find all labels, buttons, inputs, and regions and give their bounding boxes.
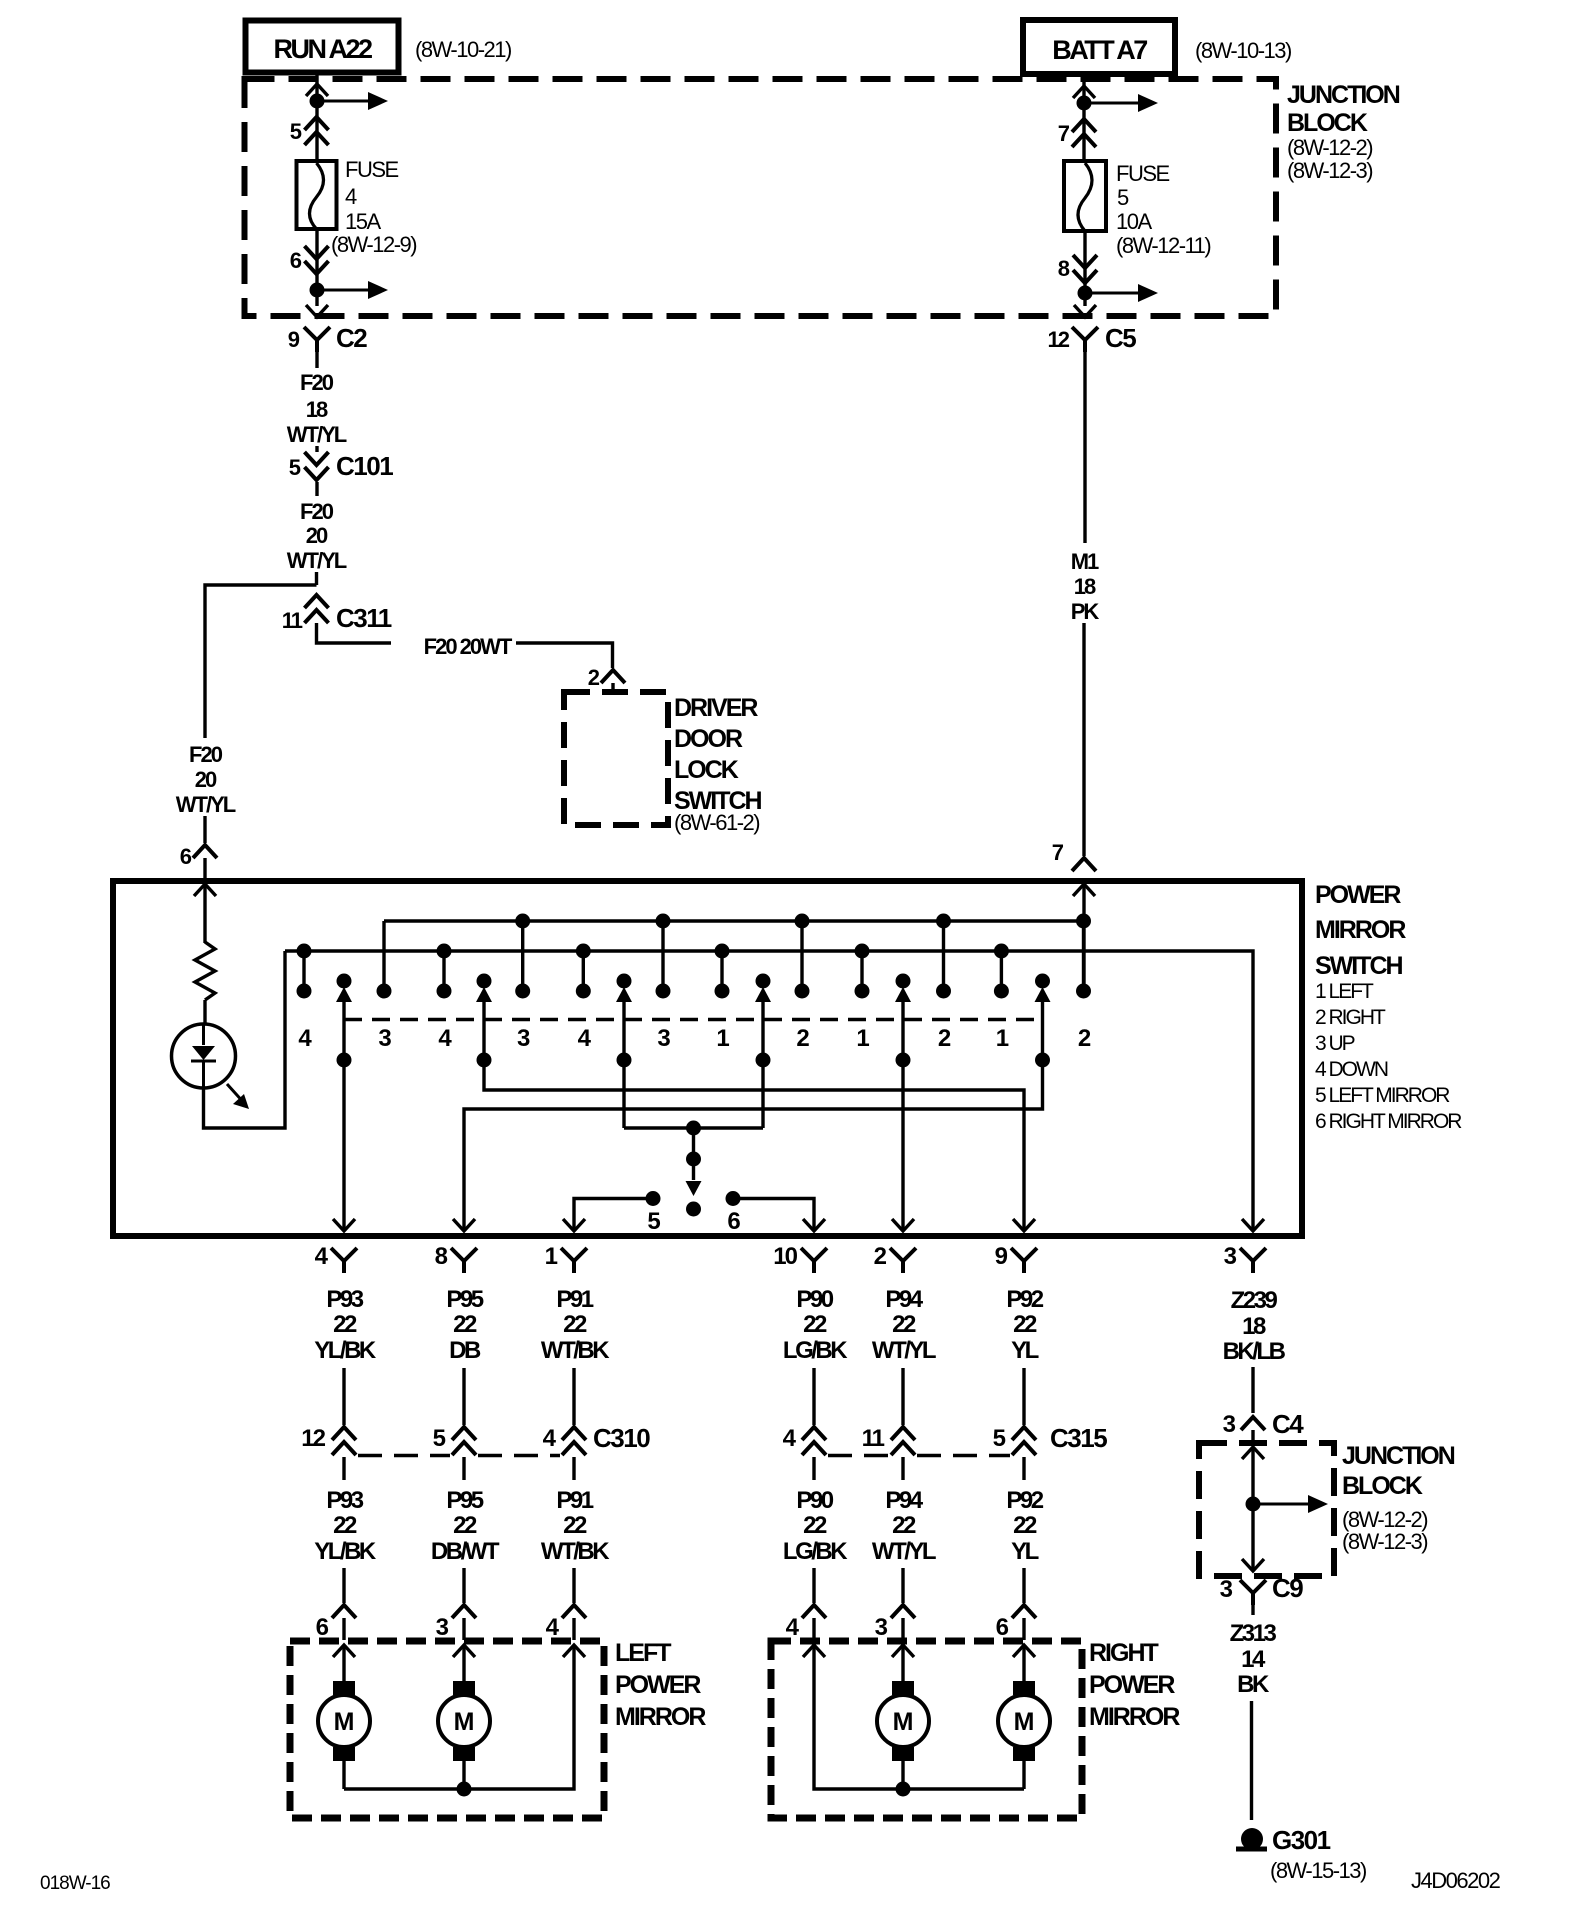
svg-text:3: 3	[1224, 1243, 1237, 1270]
svg-text:P93: P93	[326, 1286, 363, 1313]
svg-text:DRIVER: DRIVER	[674, 694, 758, 722]
svg-text:6: 6	[290, 248, 302, 273]
svg-text:POWER: POWER	[615, 1671, 701, 1699]
svg-text:P92: P92	[1006, 1487, 1043, 1514]
svg-text:22: 22	[803, 1512, 827, 1539]
connector chevrons pin 8	[1073, 270, 1097, 283]
svg-text:5: 5	[433, 1425, 446, 1452]
branch arrow right (right bottom)	[1085, 292, 1140, 295]
svg-text:9: 9	[995, 1243, 1008, 1270]
svg-text:7: 7	[1058, 121, 1070, 146]
wire contact 6 to pin 10	[733, 1199, 814, 1232]
svg-text:12: 12	[1048, 327, 1070, 352]
svg-text:WT/YL: WT/YL	[872, 1337, 936, 1364]
svg-text:BATT A7: BATT A7	[1052, 35, 1147, 65]
wire BATT A7 to junction block	[1082, 74, 1085, 86]
svg-text:6: 6	[180, 844, 192, 869]
svg-text:JUNCTION: JUNCTION	[1342, 1442, 1455, 1470]
bus 1 junction dots	[515, 914, 530, 929]
svg-text:P95: P95	[446, 1286, 483, 1313]
wire wipers H and K to selector common	[622, 1060, 625, 1128]
svg-text:5: 5	[1117, 185, 1129, 210]
svg-text:BK: BK	[1237, 1671, 1270, 1698]
right mirror common wires	[901, 1761, 904, 1789]
svg-text:MIRROR: MIRROR	[1089, 1703, 1180, 1731]
svg-text:2: 2	[1078, 1025, 1091, 1052]
svg-text:3: 3	[517, 1025, 530, 1052]
svg-text:DB: DB	[449, 1337, 481, 1364]
node BATT A7 feed box	[1023, 20, 1175, 74]
power bus line 1 (from pin 7)	[384, 919, 1084, 922]
svg-text:2: 2	[588, 665, 600, 690]
branch arrow right in junction block 2	[1253, 1503, 1310, 1506]
wire wiper B to pin 4	[342, 1060, 345, 1231]
svg-text:3: 3	[378, 1025, 391, 1052]
svg-text:14: 14	[1241, 1646, 1266, 1673]
left mirror left/right motor M	[462, 1645, 465, 1681]
svg-text:(8W-10-21): (8W-10-21)	[415, 37, 511, 62]
wire C311 to driver door lock switch, F20 20WT	[317, 623, 392, 643]
node RUN A22 feed box	[246, 21, 399, 73]
pin 7 feed wire inside switch	[1073, 884, 1095, 896]
svg-text:P90: P90	[796, 1487, 833, 1514]
svg-text:22: 22	[803, 1311, 827, 1338]
power mirror switch box	[113, 881, 1302, 1236]
svg-text:8: 8	[435, 1243, 448, 1270]
svg-text:5 LEFT MIRROR: 5 LEFT MIRROR	[1315, 1084, 1450, 1107]
svg-text:RUN A22: RUN A22	[273, 34, 372, 64]
svg-text:4: 4	[345, 184, 357, 209]
svg-text:1: 1	[856, 1025, 869, 1052]
wire wiper N to pin 2	[901, 1060, 904, 1231]
svg-text:2 RIGHT: 2 RIGHT	[1315, 1006, 1386, 1029]
svg-text:4 DOWN: 4 DOWN	[1315, 1058, 1388, 1081]
mechanical coupling dashed line	[344, 1018, 1043, 1022]
LED illumination lamp	[172, 1024, 236, 1088]
svg-text:9: 9	[288, 327, 300, 352]
left mirror up/down motor M	[342, 1645, 345, 1681]
wire label Z313 14 BK	[1251, 1605, 1254, 1615]
ground G301	[1241, 1828, 1263, 1850]
svg-text:BLOCK: BLOCK	[1287, 109, 1368, 137]
entry arrows left mirror	[333, 1645, 355, 1657]
svg-text:WT/YL: WT/YL	[872, 1538, 936, 1565]
svg-text:10A: 10A	[1116, 209, 1152, 234]
left mirror common wires	[342, 1761, 345, 1789]
svg-text:3 UP: 3 UP	[1315, 1032, 1355, 1055]
svg-text:C4: C4	[1272, 1409, 1304, 1439]
svg-text:C311: C311	[336, 603, 392, 633]
svg-text:2: 2	[796, 1025, 809, 1052]
entry arrow into junction block (left)	[306, 84, 328, 96]
svg-text:18: 18	[1242, 1313, 1266, 1340]
svg-text:6 RIGHT MIRROR: 6 RIGHT MIRROR	[1315, 1110, 1462, 1133]
svg-text:3: 3	[1223, 1411, 1236, 1438]
svg-text:FUSE: FUSE	[1116, 161, 1170, 186]
junction dot right mirror common	[896, 1782, 911, 1797]
svg-text:5: 5	[647, 1208, 660, 1235]
right mirror left/right motor M	[1022, 1645, 1025, 1681]
right mirror up/down motor M	[901, 1645, 904, 1681]
svg-text:22: 22	[1013, 1311, 1037, 1338]
wire F20 18 WT/YL	[315, 352, 318, 368]
svg-text:M: M	[1014, 1708, 1035, 1736]
svg-text:F20: F20	[300, 370, 334, 395]
svg-text:1: 1	[996, 1025, 1009, 1052]
svg-text:22: 22	[453, 1311, 477, 1338]
fuse F5 body	[1064, 161, 1106, 231]
svg-text:11: 11	[282, 608, 303, 633]
entry arrow junction block 2	[1242, 1447, 1264, 1459]
svg-text:F20: F20	[300, 499, 334, 524]
svg-text:LG/BK: LG/BK	[783, 1538, 848, 1565]
exit arrow from junction block (right)	[1074, 305, 1096, 317]
svg-text:WT/YL: WT/YL	[176, 792, 236, 817]
svg-text:C2: C2	[336, 323, 367, 353]
svg-text:POWER: POWER	[1089, 1671, 1175, 1699]
svg-text:M: M	[334, 1708, 355, 1736]
svg-text:11: 11	[862, 1425, 885, 1452]
svg-text:POWER: POWER	[1315, 881, 1401, 909]
svg-text:YL: YL	[1011, 1538, 1039, 1565]
svg-text:FUSE: FUSE	[345, 157, 399, 182]
svg-text:F20 20WT: F20 20WT	[424, 634, 513, 659]
left power mirror dashed box	[290, 1641, 604, 1818]
wire Z239 to C4	[1251, 1367, 1254, 1413]
bus 2 junction dots	[297, 944, 312, 959]
svg-text:JUNCTION: JUNCTION	[1287, 81, 1400, 109]
svg-text:(8W-10-13): (8W-10-13)	[1195, 38, 1291, 63]
svg-text:6: 6	[996, 1614, 1009, 1641]
svg-text:1 LEFT: 1 LEFT	[1315, 980, 1374, 1003]
svg-text:WT/YL: WT/YL	[287, 422, 347, 447]
wire branch to power mirror switch pin 6	[205, 585, 317, 738]
right power mirror dashed box	[771, 1641, 1082, 1818]
svg-text:RIGHT: RIGHT	[1089, 1639, 1159, 1667]
svg-text:DOOR: DOOR	[674, 725, 743, 753]
svg-text:MIRROR: MIRROR	[615, 1703, 706, 1731]
branch arrow right (left top)	[317, 100, 370, 103]
svg-text:12: 12	[301, 1425, 325, 1452]
wire Z313 to ground	[1250, 1701, 1253, 1820]
svg-text:1: 1	[716, 1025, 729, 1052]
junction dot left mirror common	[457, 1782, 472, 1797]
svg-text:C5: C5	[1105, 323, 1136, 353]
connector chevrons pin 6	[305, 261, 329, 274]
svg-text:10: 10	[773, 1243, 797, 1270]
svg-text:(8W-12-9): (8W-12-9)	[331, 232, 416, 257]
svg-text:C315: C315	[1050, 1423, 1107, 1453]
wire wiper Q to pin 8	[464, 1060, 1043, 1231]
wires from labels row1 to C310/C315	[342, 1368, 345, 1425]
svg-text:MIRROR: MIRROR	[1315, 916, 1406, 944]
wires from labels row2 to mirror pins	[342, 1568, 345, 1603]
svg-text:8: 8	[1058, 256, 1070, 281]
wire LED return to ground bus	[204, 951, 286, 1128]
svg-text:P94: P94	[885, 1487, 923, 1514]
svg-text:P94: P94	[885, 1286, 923, 1313]
junction block 2 dashed box	[1199, 1443, 1334, 1576]
junction dot below RUN A22 entry	[310, 94, 325, 109]
svg-text:(8W-15-13): (8W-15-13)	[1270, 1858, 1366, 1883]
svg-text:6: 6	[727, 1208, 740, 1235]
exit arrow from junction block (left)	[306, 305, 328, 317]
exit arrow pin 3 to Z239	[1242, 1219, 1264, 1231]
svg-text:J4D06202: J4D06202	[1411, 1868, 1501, 1893]
svg-text:Z239: Z239	[1231, 1287, 1278, 1314]
junction dot below BATT A7 entry	[1077, 96, 1092, 111]
svg-text:DB/WT: DB/WT	[431, 1538, 500, 1565]
svg-text:3: 3	[1220, 1576, 1233, 1603]
selector contact 5 (left mirror)	[646, 1191, 661, 1206]
svg-text:22: 22	[563, 1512, 587, 1539]
svg-text:2: 2	[874, 1243, 887, 1270]
svg-text:BLOCK: BLOCK	[1342, 1472, 1423, 1500]
svg-text:3: 3	[436, 1614, 449, 1641]
junction block 1 dashed outline	[245, 79, 1277, 316]
wire RUN A22 to junction block	[315, 72, 318, 84]
svg-text:22: 22	[333, 1512, 357, 1539]
svg-text:M: M	[454, 1708, 475, 1736]
movable contact arms (wiper arrows)	[337, 974, 352, 989]
svg-text:G301: G301	[1272, 1825, 1331, 1855]
svg-text:018W-16: 018W-16	[40, 1873, 110, 1894]
svg-text:WT/BK: WT/BK	[541, 1538, 610, 1565]
svg-text:LG/BK: LG/BK	[783, 1337, 848, 1364]
svg-text:22: 22	[892, 1512, 916, 1539]
svg-text:5: 5	[289, 455, 301, 480]
branch arrow right (right top)	[1084, 102, 1140, 105]
svg-text:22: 22	[1013, 1512, 1037, 1539]
svg-text:(8W-61-2): (8W-61-2)	[674, 810, 759, 835]
connector chevrons pin 5	[305, 117, 329, 130]
svg-text:LOCK: LOCK	[674, 756, 739, 784]
wire fuse 4 to C2	[315, 229, 318, 306]
svg-text:18: 18	[306, 397, 328, 422]
svg-text:18: 18	[1074, 574, 1096, 599]
svg-text:F20: F20	[189, 742, 223, 767]
svg-text:Z313: Z313	[1230, 1620, 1277, 1647]
svg-text:3: 3	[875, 1614, 888, 1641]
svg-text:22: 22	[892, 1311, 916, 1338]
svg-text:22: 22	[333, 1311, 357, 1338]
svg-text:P91: P91	[556, 1286, 593, 1313]
static contacts upper row	[302, 951, 305, 991]
svg-text:PK: PK	[1071, 599, 1100, 624]
svg-text:SWITCH: SWITCH	[1315, 952, 1403, 980]
wire through junction block 2	[1251, 1447, 1254, 1571]
svg-text:C101: C101	[336, 451, 393, 481]
svg-text:(8W-12-3): (8W-12-3)	[1342, 1529, 1427, 1554]
svg-text:15A: 15A	[345, 209, 381, 234]
branch arrow right (left bottom)	[317, 289, 370, 292]
junction dot above C5	[1078, 286, 1093, 301]
svg-text:BK/LB: BK/LB	[1223, 1338, 1286, 1365]
svg-text:P92: P92	[1006, 1286, 1043, 1313]
svg-text:WT/BK: WT/BK	[541, 1337, 610, 1364]
svg-text:20: 20	[306, 523, 328, 548]
svg-text:7: 7	[1052, 840, 1064, 865]
exit arrow junction block 2	[1242, 1559, 1264, 1571]
svg-text:20: 20	[195, 767, 217, 792]
svg-text:P90: P90	[796, 1286, 833, 1313]
svg-text:P93: P93	[326, 1487, 363, 1514]
svg-text:(8W-12-2): (8W-12-2)	[1287, 135, 1372, 160]
wire wiper E to pin 9	[484, 1060, 1024, 1231]
svg-text:3: 3	[657, 1025, 670, 1052]
svg-text:5: 5	[290, 119, 302, 144]
svg-text:6: 6	[316, 1614, 329, 1641]
svg-text:(8W-12-3): (8W-12-3)	[1287, 158, 1372, 183]
connector chevrons pin 7	[1072, 119, 1096, 132]
svg-text:22: 22	[563, 1311, 587, 1338]
svg-text:M1: M1	[1071, 549, 1099, 574]
junction dot above C2	[310, 283, 325, 298]
svg-text:P91: P91	[556, 1487, 593, 1514]
svg-text:YL/BK: YL/BK	[314, 1337, 377, 1364]
entry arrow into junction block (right)	[1073, 86, 1095, 98]
svg-text:LEFT: LEFT	[615, 1639, 671, 1667]
svg-text:1: 1	[545, 1243, 558, 1270]
svg-text:5: 5	[993, 1425, 1006, 1452]
svg-text:YL: YL	[1011, 1337, 1039, 1364]
ground bus line 2 (to pin 3)	[285, 951, 1253, 1231]
svg-text:C9: C9	[1272, 1573, 1303, 1603]
svg-text:M: M	[893, 1708, 914, 1736]
fuse F4 body	[297, 161, 337, 229]
svg-text:(8W-12-11): (8W-12-11)	[1116, 233, 1210, 258]
svg-text:2: 2	[938, 1025, 951, 1052]
svg-text:WT/YL: WT/YL	[287, 548, 347, 573]
svg-text:C310: C310	[593, 1423, 650, 1453]
wire M1 18 PK	[1083, 352, 1086, 543]
junction dot pin7 feed on bus 1	[1076, 914, 1091, 929]
svg-text:YL/BK: YL/BK	[314, 1538, 377, 1565]
selector contact 6 (right mirror)	[726, 1191, 741, 1206]
wire contact 5 to pin 1	[574, 1199, 653, 1232]
svg-text:P95: P95	[446, 1487, 483, 1514]
junction dot selector common	[686, 1121, 701, 1136]
driver door lock switch dashed box	[564, 692, 668, 825]
entry arrows right mirror	[803, 1645, 825, 1657]
junction dot in junction block 2	[1246, 1497, 1261, 1512]
resistor (illumination dropping)	[195, 942, 215, 1000]
svg-text:22: 22	[453, 1512, 477, 1539]
entry arrow pin 6 inside switch	[194, 884, 216, 896]
wire fuse 5 to C5	[1083, 231, 1086, 306]
selector wiper arm	[692, 1128, 695, 1159]
